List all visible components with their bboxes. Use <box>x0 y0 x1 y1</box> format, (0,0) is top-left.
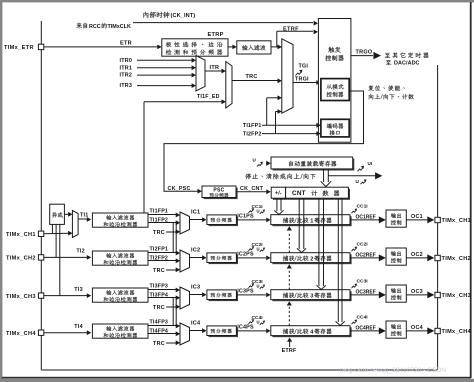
chip right bus <box>437 65 439 370</box>
pin TIMx_CH2 left <box>38 255 43 260</box>
wire CH1 to XOR riser <box>51 224 53 233</box>
page border bottom <box>2 377 471 379</box>
wire TI2FP2 to encoder <box>262 133 317 135</box>
svg-text:TIMx_ETR: TIMx_ETR <box>4 45 34 51</box>
svg-text:TGI: TGI <box>299 64 309 70</box>
wire OC3 <box>406 294 428 296</box>
svg-text:TIMx_CH1: TIMx_CH1 <box>6 232 36 238</box>
label from RCC TIMxCLK <box>76 23 87 29</box>
svg-text:TI1: TI1 <box>80 213 89 219</box>
outer gray margin left <box>0 0 2 382</box>
wire TI3 <box>44 295 87 297</box>
svg-text:TI4: TI4 <box>74 324 83 330</box>
svg-text:RCC: RCC <box>89 24 101 30</box>
block capture compare register 2 <box>272 254 351 264</box>
svg-text:UI: UI <box>368 161 373 166</box>
wire TRC top <box>232 80 278 82</box>
wire OC4REF <box>350 330 379 332</box>
svg-text:TIMx_CH2: TIMx_CH2 <box>442 256 471 262</box>
wire TI1FP1 to encoder <box>262 124 317 126</box>
block capture compare register 4 <box>272 327 351 337</box>
wire ETR <box>44 46 158 48</box>
dashed arrow CCR4 to CCR3 <box>288 307 290 326</box>
wire TI1F_ED <box>143 102 145 213</box>
svg-text:TI3FP4: TI3FP4 <box>150 292 169 298</box>
svg-text:CC4I: CC4I <box>357 314 369 320</box>
wire TI2FP1 cross up <box>175 223 177 253</box>
svg-text:DAC/ADC: DAC/ADC <box>394 61 420 67</box>
block PSC prescaler <box>204 188 238 200</box>
wire TRGI <box>293 82 317 84</box>
wire TI3FP4 cross down <box>172 298 174 326</box>
svg-text:ITR1: ITR1 <box>120 65 133 71</box>
wire ETRF bottom <box>289 340 291 348</box>
svg-text:TRC: TRC <box>246 74 258 80</box>
block output control ch3 <box>386 285 406 302</box>
pin TIMx_CH2 <box>435 255 440 260</box>
svg-text:ETR: ETR <box>120 41 132 47</box>
wire IC4PS <box>236 330 266 332</box>
svg-text:TIMx_CH3: TIMx_CH3 <box>6 294 36 300</box>
wire TI1FP1 <box>148 214 176 216</box>
svg-text:OC2: OC2 <box>411 252 423 258</box>
block auto-reload register <box>273 159 355 171</box>
wire OC2 <box>406 257 428 259</box>
block capture compare register 3 <box>272 291 351 301</box>
svg-text:CC1I: CC1I <box>357 203 369 209</box>
svg-text:IC3PS: IC3PS <box>237 288 254 294</box>
block trigger controller <box>318 19 351 143</box>
block input filter <box>237 41 271 54</box>
svg-text:U: U <box>257 208 260 213</box>
wire TI4FP3 cross up <box>175 298 177 326</box>
svg-text:OC4: OC4 <box>411 325 423 331</box>
wire ITR2 <box>137 74 192 76</box>
wire ITR <box>205 70 222 72</box>
mux trigger select <box>282 39 293 113</box>
wire ITR1 <box>137 67 192 69</box>
wire slave feedback to prescaler <box>164 91 364 191</box>
svg-text:TI3: TI3 <box>74 287 83 293</box>
wire XOR out <box>64 213 68 215</box>
wire TI1FP2 cross down <box>172 223 174 253</box>
svg-text:2: 2 <box>310 256 313 262</box>
svg-text:TRGO: TRGO <box>356 49 373 55</box>
svg-text:TI4FP3: TI4FP3 <box>150 320 169 326</box>
wire IC1PS <box>236 219 266 221</box>
svg-text:TIMx_CH4: TIMx_CH4 <box>6 331 36 337</box>
outer gray margin top <box>0 0 474 2</box>
wire TI4FP3 <box>148 325 176 327</box>
svg-text:TIMx_CH3: TIMx_CH3 <box>442 293 471 299</box>
svg-text:TI2: TI2 <box>76 249 85 255</box>
svg-text:CNT: CNT <box>292 190 306 197</box>
wire TI4 <box>44 332 87 334</box>
svg-text:IC2: IC2 <box>191 247 200 253</box>
svg-text:TI2FP1: TI2FP1 <box>150 247 169 253</box>
svg-text:ETRF: ETRF <box>282 348 297 354</box>
svg-text:TIMx_CH1: TIMx_CH1 <box>442 218 471 224</box>
wire OC4 <box>406 330 428 332</box>
svg-text:CK_PSC: CK_PSC <box>168 186 191 192</box>
block input filter edge detector ch4 <box>92 324 148 338</box>
wire TRC ch3 <box>166 306 176 308</box>
svg-text:TI3FP3: TI3FP3 <box>150 284 169 290</box>
wire TRC ch4 <box>166 342 176 344</box>
svg-text:TI4FP4: TI4FP4 <box>150 328 169 334</box>
mux IC3 <box>180 287 190 309</box>
svg-text:ITR3: ITR3 <box>120 83 133 89</box>
svg-text:U: U <box>257 319 260 324</box>
svg-text:TIMx_CH4: TIMx_CH4 <box>442 329 472 335</box>
block capture compare register 1 <box>272 216 351 226</box>
svg-text:U: U <box>257 283 260 288</box>
svg-text:TIMxCLK: TIMxCLK <box>108 24 131 30</box>
dashed arrow CCR2 to CCR1 <box>288 232 290 253</box>
svg-text:TI2FP2: TI2FP2 <box>150 255 169 261</box>
label to other timers <box>385 52 429 58</box>
label internal clock CK_INT <box>143 12 169 18</box>
svg-text:1: 1 <box>310 218 313 224</box>
svg-text:IC4: IC4 <box>191 320 201 326</box>
block input filter edge detector ch3 <box>92 288 148 302</box>
svg-text:TIMx_CH2: TIMx_CH2 <box>6 256 36 262</box>
svg-text:CK_CNT: CK_CNT <box>240 186 264 192</box>
svg-text:ITR: ITR <box>210 65 220 71</box>
svg-text:TI1FP2: TI1FP2 <box>150 217 169 223</box>
svg-text:TI2FP2: TI2FP2 <box>243 132 262 138</box>
svg-text:TRC: TRC <box>153 341 165 347</box>
wire OC1 <box>406 219 428 221</box>
svg-text:TRGI: TRGI <box>295 77 309 83</box>
wire IC2 out <box>190 257 203 259</box>
svg-text:IC3: IC3 <box>191 284 200 290</box>
svg-text:U: U <box>257 246 260 251</box>
svg-text:CC2I: CC2I <box>357 241 369 247</box>
wire CH1 direct <box>44 232 69 235</box>
svg-text:ITR0: ITR0 <box>120 58 133 64</box>
mux TI1 select <box>72 211 78 238</box>
pin TIMx_CH4 left <box>38 330 43 335</box>
pin TIMx_CH1 left <box>38 231 43 236</box>
block input filter edge detector ch1 <box>92 213 148 227</box>
block input filter edge detector ch2 <box>92 251 148 265</box>
wire OC3REF <box>350 294 379 296</box>
wire CK_CNT <box>236 191 267 193</box>
wire TI1 <box>78 218 87 220</box>
wire U event right <box>328 175 375 177</box>
svg-text:ITR2: ITR2 <box>120 73 133 79</box>
wire TRC ch1 <box>166 231 176 233</box>
mux IC1 <box>180 212 190 234</box>
block CNT counter <box>287 189 350 200</box>
block prescaler ch3 <box>209 292 239 302</box>
wire IC1 out <box>190 219 203 221</box>
block polarity/edge/prescaler <box>162 39 228 56</box>
mux IC2 <box>180 250 190 272</box>
label reset enable updown count <box>368 85 404 91</box>
chip left rail <box>40 21 42 370</box>
block slave mode controller <box>321 79 349 101</box>
svg-text:TRC: TRC <box>153 305 165 311</box>
svg-text:TRC: TRC <box>153 268 165 274</box>
wire ETRP <box>228 46 233 48</box>
mux TRC select <box>226 62 232 109</box>
hollow arrow ARR to CNT <box>323 169 325 182</box>
wire IC4 out <box>190 330 203 332</box>
mux ITR select <box>196 56 205 92</box>
wire CH2 to XOR riser <box>55 224 57 257</box>
hollow arrow CNT to CCR1 <box>276 198 278 211</box>
pin TIMx_CH1 <box>435 217 440 222</box>
hollow arrow CNT to CCR2 <box>298 198 300 249</box>
mux IC4 <box>180 323 190 345</box>
svg-text:(CK_INT): (CK_INT) <box>171 13 196 19</box>
wire OC1REF <box>350 219 379 221</box>
wire IC3PS <box>236 294 266 296</box>
wire IC2PS <box>236 257 266 259</box>
svg-text:IC1: IC1 <box>191 209 200 215</box>
svg-text:ETRP: ETRP <box>208 32 224 38</box>
svg-text:blog.csdn.net/qq_38410730 - CS: blog.csdn.net/qq_38410730 - CSDN <box>340 367 446 374</box>
svg-text:TI1F_ED: TI1F_ED <box>197 94 220 100</box>
block output control ch4 <box>386 321 406 338</box>
wire OC2REF <box>350 257 379 259</box>
pin TIMx_CH4 <box>435 328 440 333</box>
chip bottom edge <box>41 369 437 371</box>
block prescaler ch2 <box>209 255 239 265</box>
svg-text:IC4PS: IC4PS <box>237 324 254 330</box>
block plus minus <box>273 189 287 200</box>
outer gray margin bottom <box>0 379 474 382</box>
wire TRGO <box>351 55 373 57</box>
wire TI3FP4 <box>148 297 176 299</box>
svg-text:CC3I: CC3I <box>357 278 369 284</box>
block XOR <box>50 204 65 224</box>
wire TI2FP1 <box>148 252 176 254</box>
svg-text:TRC: TRC <box>153 230 165 236</box>
dashed arrow CCR3 to CCR2 <box>288 270 290 290</box>
block prescaler ch1 <box>209 217 239 227</box>
svg-text:OC1: OC1 <box>411 214 423 220</box>
svg-text:TI1FP1: TI1FP1 <box>243 123 262 129</box>
pin TIMx_CH3 left <box>38 293 43 298</box>
wire TI2FP2 <box>148 260 176 262</box>
hollow arrow CNT to CCR3 <box>318 198 320 286</box>
wire ITR3 <box>137 85 192 87</box>
wire CK_INT <box>133 22 313 24</box>
wire ETRF <box>271 46 282 48</box>
block output control ch1 <box>386 210 406 227</box>
hollow arrow CNT to CCR4 <box>337 198 339 322</box>
wire TI2 <box>44 256 87 258</box>
block encoder interface <box>321 119 349 137</box>
wire TI1FP2 <box>148 222 176 224</box>
block output control ch2 <box>386 248 406 265</box>
block prescaler ch4 <box>209 328 239 338</box>
wire IC3 out <box>190 294 203 296</box>
svg-text:ETRF: ETRF <box>283 26 299 32</box>
svg-text:OC3: OC3 <box>411 289 423 295</box>
wire ITR0 <box>137 59 192 61</box>
wire TI4FP4 <box>148 333 176 335</box>
pin TIMx_CH3 <box>435 292 440 297</box>
svg-text:PSC: PSC <box>213 188 224 194</box>
svg-text:TI1FP1: TI1FP1 <box>150 209 169 215</box>
wire TRC ch2 <box>166 269 176 271</box>
label stop clear updown <box>245 173 315 179</box>
pin TIMx_ETR <box>38 44 43 49</box>
svg-text:+/-: +/- <box>275 191 282 197</box>
svg-text:3: 3 <box>310 293 313 299</box>
wire CH3 to XOR riser <box>59 224 61 295</box>
page border right <box>470 2 472 378</box>
svg-text:IC1PS: IC1PS <box>237 213 254 219</box>
wire TI3FP3 <box>148 289 176 291</box>
svg-text:IC2PS: IC2PS <box>237 251 254 257</box>
